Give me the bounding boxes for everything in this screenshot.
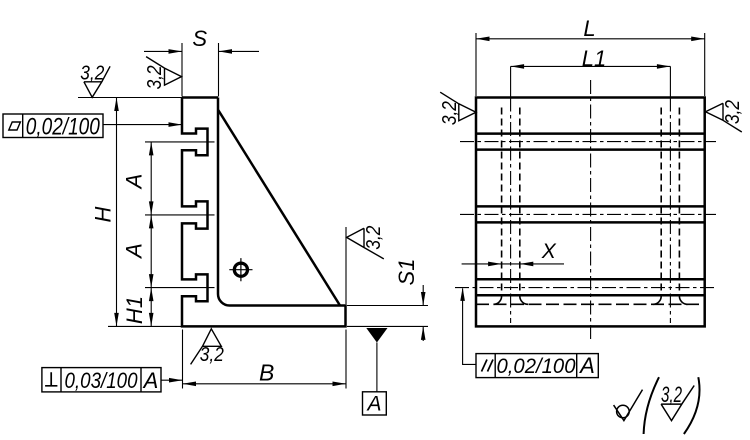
svg-text:X: X [541, 240, 557, 263]
svg-text:3,2: 3,2 [439, 101, 461, 125]
svg-text:3,2: 3,2 [200, 344, 224, 366]
svg-text:A: A [122, 243, 147, 260]
svg-text:L: L [583, 16, 595, 41]
svg-text:3,2: 3,2 [661, 382, 682, 407]
svg-text:B: B [259, 360, 274, 386]
svg-text:A: A [122, 174, 147, 191]
svg-text:0,02/100: 0,02/100 [497, 354, 576, 378]
svg-text:L1: L1 [582, 46, 606, 71]
svg-text:S1: S1 [394, 259, 419, 286]
svg-text:A: A [365, 393, 381, 416]
svg-text:0,03/100: 0,03/100 [65, 368, 139, 393]
svg-text:3,2: 3,2 [722, 100, 744, 124]
svg-text:3,2: 3,2 [144, 65, 166, 89]
svg-text:3,2: 3,2 [80, 62, 104, 84]
svg-text:A: A [578, 353, 595, 378]
svg-text:A: A [142, 368, 159, 393]
svg-text:H: H [91, 206, 116, 222]
svg-text:H1: H1 [122, 296, 147, 324]
svg-text:0,02/100: 0,02/100 [26, 114, 101, 141]
svg-text:3,2: 3,2 [363, 226, 385, 250]
svg-text:S: S [192, 26, 207, 51]
